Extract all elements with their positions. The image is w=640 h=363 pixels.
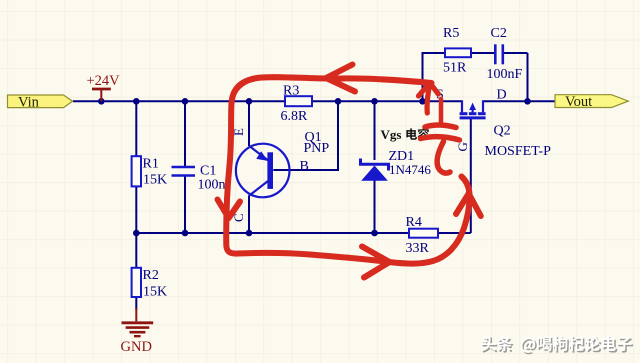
wire R2 lower to ground [135, 297, 137, 310]
wire snubber left vertical [423, 53, 446, 101]
resistor R4 [409, 229, 438, 238]
red capacitor sketch top plate [425, 125, 456, 128]
wire R1 branch upper [135, 101, 137, 156]
wire C1 branch lower [184, 176, 186, 234]
wire main top rail right of MOSFET [483, 100, 555, 102]
resistor R2 [132, 268, 141, 297]
ground [121, 308, 154, 355]
port Vout [555, 94, 628, 110]
wire Q1 base to top rail [273, 101, 338, 170]
junction node 7 [419, 98, 426, 105]
transistor Q1 PNP [236, 144, 290, 198]
svg-text:33R: 33R [406, 241, 430, 256]
svg-text:R1: R1 [143, 156, 159, 171]
wire R4 to gate [438, 232, 471, 234]
resistor R1 [132, 156, 141, 186]
svg-text:R3: R3 [283, 84, 299, 99]
svg-text:C1: C1 [200, 163, 216, 178]
svg-text:51R: 51R [443, 60, 467, 75]
junction node 8 [524, 98, 531, 105]
red arrow up (right stroke) [456, 194, 481, 217]
junction node 12 [371, 230, 378, 237]
zener diode ZD1 [361, 159, 389, 181]
red arrow left (top stroke) [326, 65, 355, 92]
wire R2 upper [135, 233, 137, 268]
svg-text:MOSFET-P: MOSFET-P [485, 144, 552, 159]
label dianrong chars [406, 128, 417, 139]
svg-text:1N4746: 1N4746 [389, 162, 431, 177]
wire gate vertical [470, 119, 472, 234]
red stub near S [439, 99, 444, 122]
wire Q1 collector branch [248, 196, 250, 234]
wire main top rail left of MOSFET [73, 100, 462, 102]
capacitor C1 [172, 166, 196, 169]
svg-text:Q2: Q2 [494, 124, 511, 139]
junction node 5 [335, 98, 342, 105]
svg-text:6.8R: 6.8R [281, 109, 309, 124]
wire C2 to right vertical [503, 52, 528, 54]
junction node 11 [246, 230, 253, 237]
watermark toutiao [482, 338, 497, 353]
svg-text:100nF: 100nF [487, 67, 523, 82]
red arrow down (left stroke) [218, 200, 241, 219]
red arrow into S node [419, 83, 439, 113]
svg-text:G: G [455, 142, 470, 151]
port Vin [8, 94, 73, 110]
wire R1 branch lower [135, 186, 137, 233]
svg-text:B: B [300, 159, 309, 174]
wire ZD1 upper [374, 101, 376, 160]
wire Q1 emitter branch [248, 101, 250, 146]
svg-text:Vin: Vin [18, 94, 40, 110]
junction node 2 [133, 98, 140, 105]
red marker loop [226, 77, 469, 264]
svg-text:+24V: +24V [87, 73, 121, 89]
wire C1 branch upper [184, 101, 186, 167]
red arrow right (bottom stroke) [362, 247, 390, 278]
power +24V [87, 73, 121, 101]
svg-text:100n: 100n [198, 178, 226, 193]
wire R5 to C2 [471, 52, 495, 54]
capacitor C2 [494, 44, 497, 64]
wire ZD1 lower [374, 181, 376, 234]
red capacitor sketch bottom plate [421, 137, 460, 140]
junction node 1 [98, 98, 105, 105]
junction node 10 [182, 230, 189, 237]
svg-text:15K: 15K [143, 172, 167, 187]
wire snubber right vertical [527, 53, 529, 101]
junction node 4 [246, 98, 253, 105]
svg-text:R2: R2 [143, 268, 159, 283]
svg-text:GND: GND [121, 339, 152, 355]
svg-text:C2: C2 [491, 26, 507, 41]
svg-text:PNP: PNP [304, 141, 330, 156]
junction node 6 [371, 98, 378, 105]
svg-text:R4: R4 [406, 215, 422, 230]
svg-text:Vout: Vout [565, 94, 592, 110]
wire bottom rail [136, 232, 409, 234]
MOSFET Q2 P-channel [460, 100, 486, 118]
svg-text:D: D [497, 87, 507, 102]
svg-text:R5: R5 [443, 26, 459, 41]
resistor R3 [285, 96, 312, 106]
svg-text:15K: 15K [143, 285, 167, 300]
resistor R5 [445, 48, 471, 57]
red capacitor sketch tail [437, 142, 450, 174]
junction node 3 [182, 98, 189, 105]
junction node 9 [133, 230, 140, 237]
svg-text:Vgs: Vgs [381, 127, 402, 142]
